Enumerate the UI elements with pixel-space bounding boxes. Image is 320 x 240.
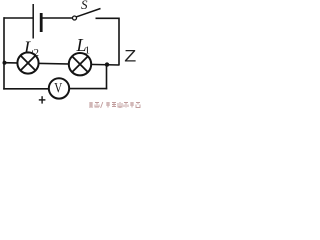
lamp L1 bulb <box>69 53 91 75</box>
wire voltmeter to tap riser <box>69 88 107 90</box>
wire voltmeter tap riser vertical <box>106 65 108 90</box>
svg-text:L: L <box>23 37 34 57</box>
node junction left (lamp row / left wire) <box>3 61 7 65</box>
wire top-left horizontal <box>4 17 34 19</box>
battery (cell) short thick plate <box>40 13 43 32</box>
wire middle horizontal (lamp row) <box>4 63 120 65</box>
wire switch to top-right corner <box>96 17 120 19</box>
wire right vertical <box>118 18 120 66</box>
wire left vertical <box>3 17 5 89</box>
svg-text:V: V <box>54 81 62 97</box>
svg-text:Z: Z <box>124 47 136 65</box>
wire battery to switch <box>43 17 73 19</box>
lamp L2 bulb <box>17 52 38 73</box>
svg-text:1: 1 <box>85 45 91 57</box>
wire bottom horizontal to voltmeter <box>3 88 49 90</box>
label plus polarity of voltmeter <box>39 99 46 101</box>
voltmeter V <box>49 78 69 98</box>
watermark <box>89 102 140 108</box>
node junction right (voltmeter tap) <box>105 62 109 66</box>
switch S pivot contact <box>73 16 77 20</box>
svg-text:S: S <box>81 0 88 12</box>
battery (cell) long thin plate <box>32 4 34 39</box>
switch S lever (open) <box>77 9 101 17</box>
svg-text:2: 2 <box>34 47 40 59</box>
